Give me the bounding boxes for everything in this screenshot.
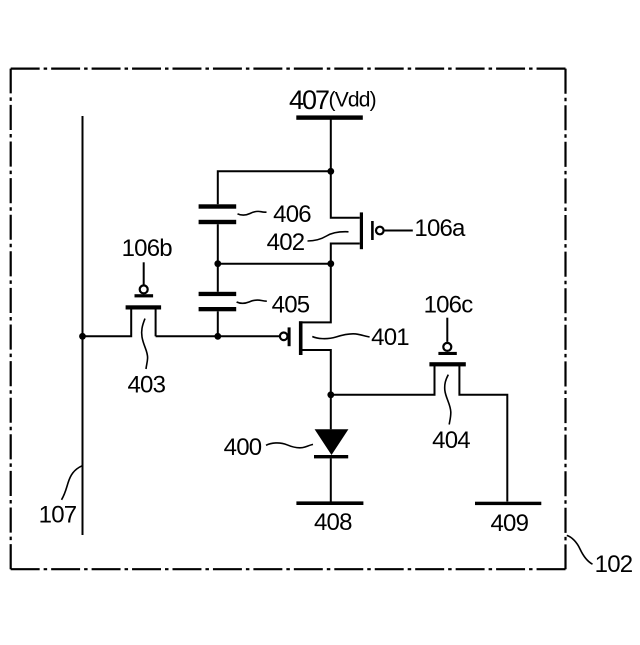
svg-text:106c: 106c bbox=[424, 291, 474, 318]
svg-text:403: 403 bbox=[127, 372, 165, 399]
node: left end of node line bbox=[214, 260, 221, 267]
wire: gate lead of 403 up to 106b bbox=[143, 262, 145, 284]
svg-text:409: 409 bbox=[490, 510, 528, 537]
wire: Vdd bar down to transistor 402 drain bbox=[331, 120, 360, 218]
boundary box 102 (dash-dot frame) bbox=[11, 69, 566, 570]
wire: 401 source down to output node bbox=[303, 350, 331, 395]
node: junction on Vdd branch bbox=[327, 168, 334, 175]
svg-text:106b: 106b bbox=[122, 235, 173, 262]
ground bar 409 bbox=[475, 502, 541, 505]
transistor 402 (PMOS, gate to 106a) bbox=[360, 212, 384, 249]
svg-text:401: 401 bbox=[371, 324, 409, 351]
wire: gate lead of 404 up to 106c bbox=[446, 318, 448, 342]
wire: top horizontal to capacitor 406 bbox=[218, 171, 331, 204]
transistor 403 (select MOS, gate 106b) bbox=[126, 285, 162, 309]
svg-text:102: 102 bbox=[595, 551, 633, 578]
leader line to 405 bbox=[237, 300, 267, 303]
wire: bus from line 107 to transistor 403 bbox=[83, 309, 132, 336]
leader line to 102 bbox=[567, 535, 593, 564]
leader line to 107 bbox=[62, 466, 83, 500]
transistor 401 (drive PMOS) bbox=[280, 321, 303, 355]
wire: capacitor 406 bottom to node line bbox=[217, 224, 219, 264]
wire: output node to transistor 404 left terminal bbox=[331, 365, 435, 395]
leader line to 404 bbox=[445, 375, 451, 425]
leader line to 403 bbox=[142, 319, 148, 369]
node: bus joins line 107 bbox=[79, 333, 86, 340]
svg-text:402: 402 bbox=[267, 229, 305, 256]
wire: bus from 403 to capacitor node bbox=[156, 335, 218, 337]
transistor 404 (reset MOS, gate 106c) bbox=[429, 343, 465, 367]
wire: bus to gate bubble of 401 bbox=[218, 335, 280, 337]
svg-text:406: 406 bbox=[273, 201, 311, 228]
svg-text:(Vdd): (Vdd) bbox=[329, 89, 376, 112]
svg-text:407: 407 bbox=[289, 85, 329, 115]
node: right end of node line bbox=[327, 260, 334, 267]
svg-text:404: 404 bbox=[432, 427, 470, 454]
wire: output node down to photodiode 400 bbox=[330, 395, 332, 430]
svg-text:405: 405 bbox=[272, 292, 310, 319]
node: output node bbox=[327, 391, 334, 398]
capacitor C405 bbox=[199, 292, 237, 312]
leader line to 400 bbox=[266, 443, 313, 448]
signal line 107 (vertical column line) bbox=[82, 116, 84, 535]
wire: node down to capacitor 405 top bbox=[217, 264, 219, 292]
ground bar 408 bbox=[296, 501, 363, 505]
photodiode 400 (diode symbol) bbox=[314, 429, 348, 458]
wire: 404 right terminal to ground 409 bbox=[459, 365, 507, 501]
leader line to 401 bbox=[312, 334, 369, 339]
wire: gate lead of 402 to 106a bbox=[383, 230, 412, 232]
capacitor C406 bbox=[199, 204, 237, 224]
wire: capacitor 405 bottom to gate bus bbox=[217, 311, 219, 336]
svg-text:400: 400 bbox=[224, 434, 262, 461]
leader line to 406 bbox=[238, 211, 267, 215]
wire: 401 drain up to node bbox=[303, 264, 331, 323]
svg-text:107: 107 bbox=[39, 502, 77, 529]
node: bus joins capacitor 405 bottom bbox=[214, 333, 221, 340]
wire: 403 right terminal down to bus bbox=[155, 309, 157, 336]
leader line to 402 bbox=[308, 232, 349, 241]
wire: node line between capacitors and 402 bbox=[218, 263, 331, 265]
wire: transistor 402 source down to node bbox=[331, 244, 360, 264]
svg-text:408: 408 bbox=[314, 509, 352, 536]
power rail bar 407 (Vdd) bbox=[296, 115, 363, 119]
svg-text:106a: 106a bbox=[414, 215, 466, 242]
wire: photodiode 400 to ground 408 bbox=[330, 458, 332, 501]
